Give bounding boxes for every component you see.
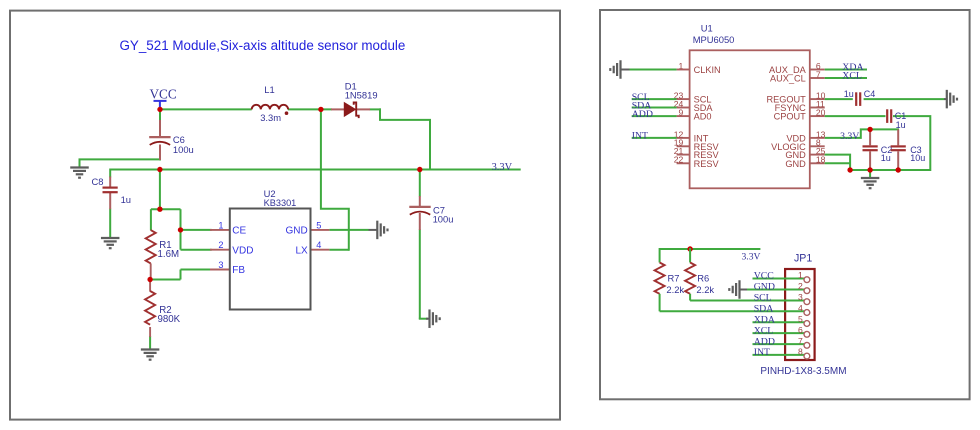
- svg-text:L1: L1: [264, 84, 274, 95]
- svg-text:100u: 100u: [173, 144, 194, 155]
- svg-text:INT: INT: [754, 347, 770, 358]
- svg-text:3.3m: 3.3m: [260, 112, 281, 123]
- svg-text:3: 3: [798, 292, 803, 302]
- svg-text:2.2k: 2.2k: [696, 284, 714, 295]
- svg-text:MPU6050: MPU6050: [693, 34, 735, 45]
- svg-text:1.6M: 1.6M: [158, 249, 180, 260]
- svg-text:VCC: VCC: [150, 87, 177, 102]
- svg-text:10u: 10u: [910, 153, 925, 163]
- svg-text:980K: 980K: [158, 314, 181, 325]
- svg-text:1: 1: [679, 61, 684, 71]
- svg-text:VDD: VDD: [232, 245, 253, 256]
- svg-text:1u: 1u: [881, 153, 891, 163]
- svg-text:AUX_CL: AUX_CL: [770, 74, 806, 84]
- svg-text:VCC: VCC: [754, 271, 774, 282]
- svg-text:8: 8: [798, 347, 803, 357]
- svg-text:4: 4: [798, 303, 803, 313]
- svg-text:GND: GND: [285, 226, 307, 237]
- svg-text:XDA: XDA: [754, 315, 775, 326]
- svg-text:2: 2: [798, 281, 803, 291]
- svg-text:9: 9: [679, 108, 684, 118]
- svg-text:C8: C8: [92, 176, 104, 187]
- svg-text:22: 22: [674, 155, 684, 165]
- svg-text:CLKIN: CLKIN: [694, 65, 721, 75]
- svg-text:C4: C4: [864, 89, 876, 99]
- svg-text:GND: GND: [754, 282, 775, 293]
- svg-text:SCL: SCL: [754, 293, 772, 304]
- svg-text:R6: R6: [697, 272, 709, 283]
- svg-text:1N5819: 1N5819: [345, 89, 378, 100]
- svg-text:20: 20: [816, 108, 826, 118]
- svg-text:3: 3: [218, 260, 223, 270]
- svg-text:GY_521 Module,Six-axis altitud: GY_521 Module,Six-axis altitude sensor m…: [120, 38, 406, 53]
- svg-text:1u: 1u: [844, 89, 854, 99]
- svg-text:1u: 1u: [896, 120, 906, 130]
- svg-text:1u: 1u: [121, 194, 131, 205]
- svg-text:KB3301: KB3301: [264, 198, 297, 208]
- svg-text:PINHD-1X8-3.5MM: PINHD-1X8-3.5MM: [760, 366, 846, 377]
- svg-text:1: 1: [798, 270, 803, 280]
- svg-text:5: 5: [798, 314, 803, 324]
- svg-text:ADD: ADD: [754, 336, 775, 347]
- svg-text:7: 7: [798, 336, 803, 346]
- svg-text:XCL: XCL: [754, 325, 774, 336]
- svg-text:JP1: JP1: [794, 253, 812, 265]
- svg-text:GND: GND: [785, 159, 806, 169]
- svg-text:SDA: SDA: [754, 304, 774, 315]
- svg-text:3.3V: 3.3V: [742, 252, 761, 263]
- svg-text:LX: LX: [295, 245, 308, 256]
- svg-text:6: 6: [798, 325, 803, 335]
- svg-text:INT: INT: [632, 131, 648, 142]
- svg-text:CE: CE: [232, 226, 246, 237]
- svg-text:U1: U1: [701, 23, 713, 34]
- svg-text:4: 4: [316, 240, 321, 250]
- svg-text:18: 18: [816, 155, 826, 165]
- svg-text:XCL: XCL: [842, 70, 862, 81]
- svg-text:FB: FB: [232, 265, 245, 276]
- svg-text:1: 1: [218, 220, 223, 230]
- svg-text:7: 7: [816, 69, 821, 79]
- svg-text:100u: 100u: [433, 213, 454, 224]
- svg-text:RESV: RESV: [694, 159, 720, 169]
- svg-text:R7: R7: [668, 272, 680, 283]
- svg-text:CPOUT: CPOUT: [774, 112, 807, 122]
- svg-text:ADD: ADD: [632, 109, 653, 120]
- svg-text:5: 5: [316, 220, 321, 230]
- svg-text:2: 2: [218, 240, 223, 250]
- svg-text:3.3V: 3.3V: [492, 162, 513, 173]
- svg-text:AD0: AD0: [694, 112, 712, 122]
- svg-text:2.2k: 2.2k: [666, 284, 684, 295]
- svg-text:3.3V: 3.3V: [840, 131, 859, 142]
